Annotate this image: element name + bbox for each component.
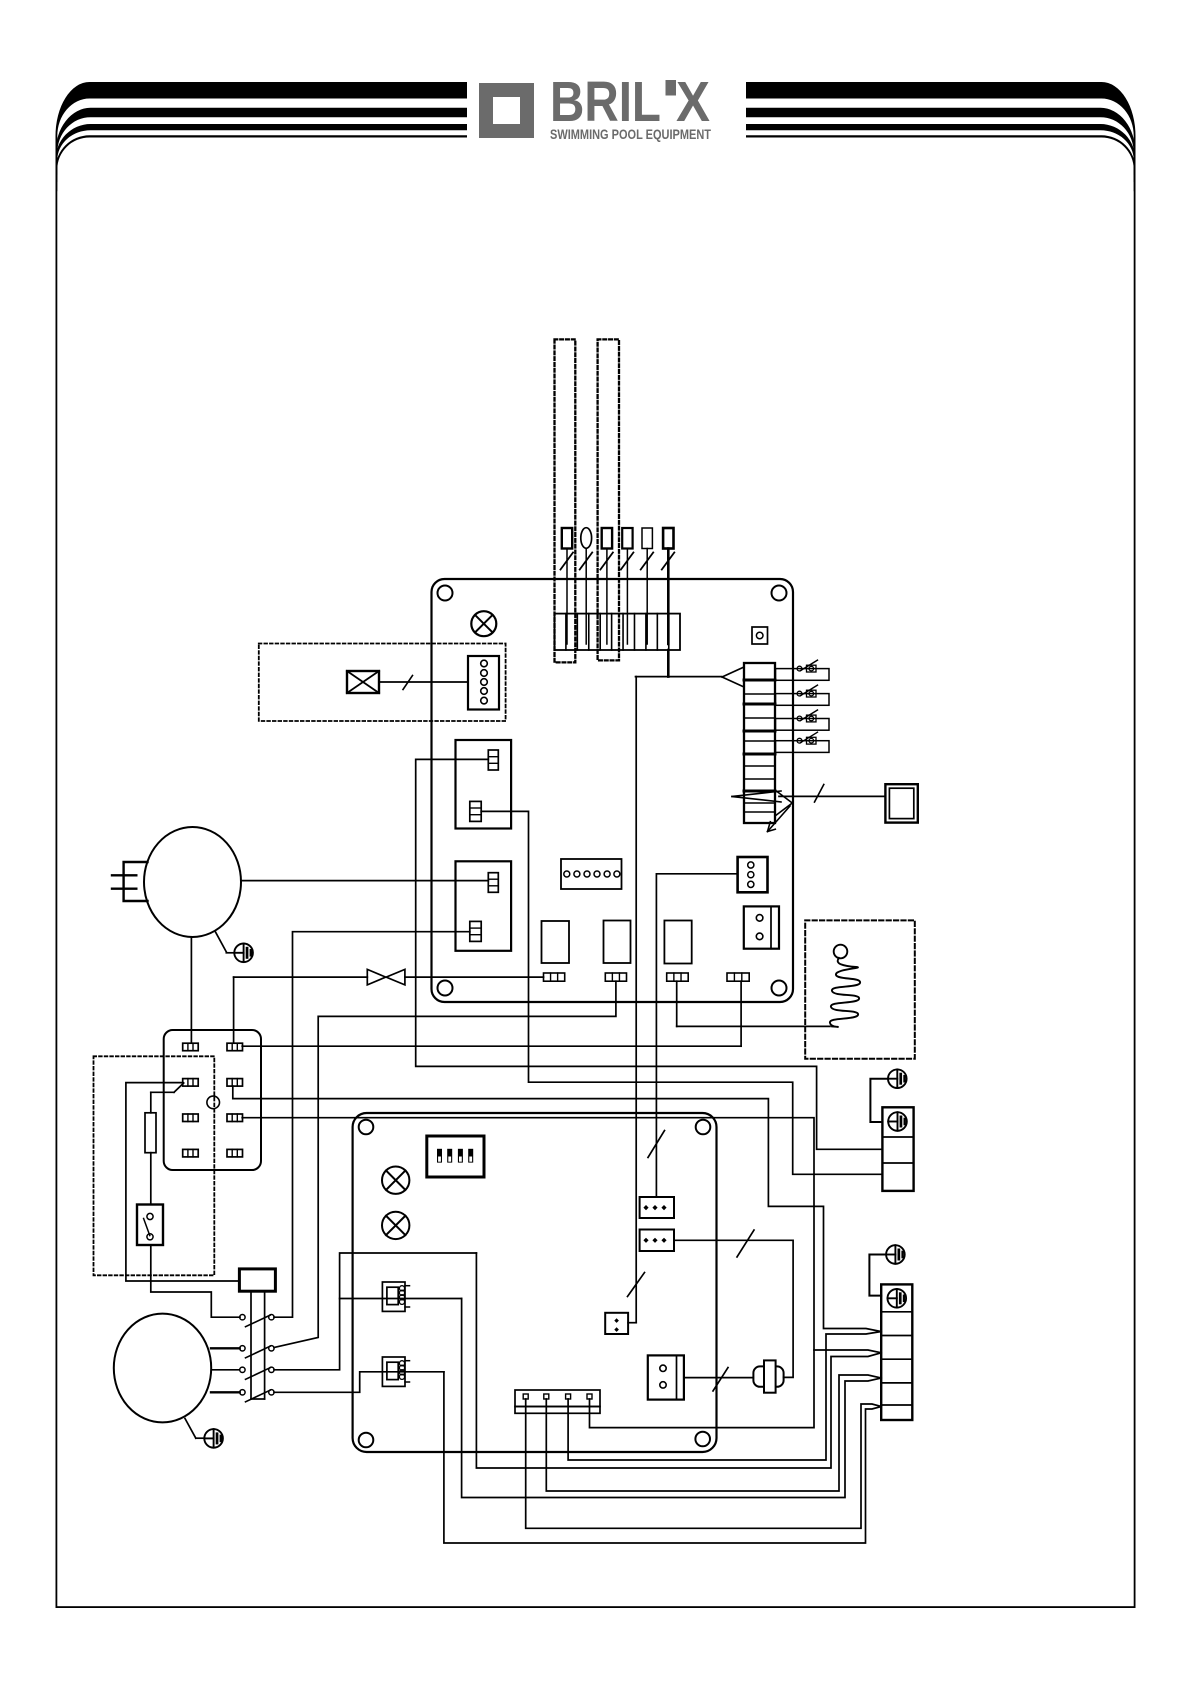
- solenoid valve V1: [367, 969, 385, 985]
- transformer T1: [239, 1269, 275, 1291]
- connector CN6 (6 pin circles): [561, 859, 622, 889]
- dashed cable sheath 1: [555, 339, 576, 662]
- wire: sensor 5 lead: [646, 549, 648, 645]
- wire: M2 to sensor B2: [185, 1419, 196, 1439]
- connector 3-pin J1 with diamonds: [640, 1197, 674, 1218]
- relay coil RL4: [382, 1282, 405, 1311]
- K1 pin connector row1 col1: [183, 1043, 199, 1051]
- K1 pin connector row4 col1: [183, 1149, 199, 1157]
- diagonal arrow pointing down-left: [768, 806, 791, 832]
- crossing slash on J3 wire: [628, 1273, 645, 1297]
- wire: resistor to switch S1: [150, 1153, 152, 1205]
- wire: comb pin 6 down to arrow wire: [667, 650, 670, 677]
- page border bottom line: [56, 1606, 1136, 1608]
- wire: switch row4 through relay coil RL5: [274, 1372, 444, 1393]
- wire U1: PCB2 pin3 to X3 cell2: [568, 1332, 881, 1461]
- wire U5: PCB2 pin1 to X3 cell5: [526, 1399, 882, 1528]
- wire: valve left to relay K1: [234, 976, 368, 978]
- DIP switch block: [427, 1136, 484, 1177]
- control board PCB2: [353, 1113, 717, 1452]
- wire: sensor 4 lead: [626, 549, 628, 645]
- pressure switch S1: [137, 1205, 163, 1246]
- wire: A2 connector via branch to X2 cell3: [481, 811, 882, 1174]
- indicator lamp H2: [382, 1167, 409, 1194]
- switch contact pair row 3: [240, 1367, 245, 1372]
- wire: M2 lead 1: [211, 1347, 240, 1349]
- connector CN2 (2 pin circles): [744, 906, 779, 948]
- terminal strip X0 on PCB1: [744, 663, 775, 823]
- wire U4: coil RL4 output to X3 cell4: [462, 1299, 882, 1498]
- wire: valve to PCB1 connector c1: [405, 976, 544, 978]
- dashed cable sheath 2: [598, 339, 619, 660]
- K1 pin connector row2 col1: [183, 1079, 199, 1087]
- wire: sensor 2 lead: [585, 549, 587, 645]
- output connector c2 of PCB1: [605, 973, 626, 981]
- display unit X-box: [347, 671, 379, 693]
- decorative header stripe frame: [56, 82, 468, 1608]
- temperature sensor B2: [204, 1429, 223, 1448]
- wire: S1 down and right to switch bank: [151, 1245, 240, 1317]
- wire: K1 row2 left loop to transformer T1: [126, 1083, 239, 1281]
- auxiliary device (motorised valve): [753, 1366, 764, 1386]
- relay RL3 on PCB1: [664, 921, 691, 964]
- crossing slash on sensor 4 lead: [621, 553, 634, 570]
- crossing slash on sensor 5 lead: [641, 553, 654, 570]
- crossing slash on CN2B wire: [713, 1368, 728, 1392]
- sensor symbol in X2 cell1: [888, 1112, 907, 1131]
- connector 3-pin vertical A2: [470, 801, 481, 821]
- crossing slash on sensor 6 lead: [662, 553, 675, 570]
- sensor cable terminal 5: [642, 528, 652, 549]
- wire: M2 lead 3: [211, 1391, 240, 1393]
- wire: CN3 to PCB2 J1: [656, 874, 737, 1197]
- connector 2-pin J3: [605, 1313, 628, 1334]
- K1 pin connector row3 col1: [183, 1114, 199, 1122]
- wire: strip to remote connector box: [779, 795, 885, 797]
- remote connector box (double square): [885, 784, 917, 822]
- svg-text:X: X: [676, 70, 710, 134]
- wire: PCB1 c4 to relay K1 row1: [740, 981, 742, 1046]
- switch contact pair row 1: [240, 1315, 245, 1320]
- sensor symbol in X3 cell1: [888, 1289, 907, 1308]
- relay module box K-B on PCB1: [456, 861, 512, 951]
- bottom output connector of PCB2: [515, 1390, 600, 1407]
- K1 center hole: [207, 1096, 220, 1109]
- output connector c3 of PCB1: [667, 973, 689, 981]
- wire: PCB1 c2 to switch row2: [274, 981, 616, 1347]
- sensor cable terminal 1: [562, 528, 572, 549]
- wire: B3 to X2: [870, 1079, 888, 1122]
- relay module box K-A on PCB1: [456, 740, 512, 829]
- sensor cable terminal 6: [663, 528, 673, 549]
- sensor cable terminal 4: [622, 528, 632, 549]
- dotted accessory box: [94, 1056, 215, 1275]
- heater element E1 (coil): [834, 945, 848, 959]
- wire U6: coil RL5 output to X3 cell5: [444, 1372, 881, 1543]
- K1 pin connector row4 col2: [227, 1149, 243, 1157]
- output connector c4 of PCB1: [727, 973, 749, 981]
- connector CN5 (5 pin circles): [468, 656, 499, 710]
- small screw box with circle: [752, 627, 768, 644]
- resistor R1: [145, 1113, 156, 1153]
- crossing slash on X-box wire: [403, 676, 413, 690]
- temperature sensor B1: [234, 944, 253, 963]
- connector 3-pin vertical B2: [470, 921, 481, 941]
- sensor cable terminal 2: [581, 528, 592, 549]
- wire: M1 to PCB1 connector B1: [241, 880, 488, 882]
- wire: M1 to sensor B1: [216, 932, 227, 952]
- BRILIX logo square: [486, 90, 527, 131]
- crossing slash on CN3-J1 wire: [648, 1131, 665, 1158]
- switch bank vertical bars: [250, 1291, 252, 1399]
- wire: branch through relay coil RL4: [340, 1298, 462, 1300]
- wire U2: cross wire to X3 cell3: [476, 1253, 881, 1468]
- indicator lamp H3: [382, 1212, 409, 1239]
- sensor cable terminal 3: [602, 528, 612, 549]
- compressor motor M2: [114, 1314, 211, 1423]
- external sensor B3: [888, 1069, 907, 1088]
- wire U3: PCB2 pin2 to X3 cell4: [546, 1375, 881, 1491]
- crossing slash on sensor 1 lead: [561, 553, 574, 570]
- K1 pin connector row1 col2: [227, 1043, 243, 1051]
- fuse-switch loop F2: [776, 694, 830, 706]
- wire: X-box to connector CN5: [379, 681, 468, 683]
- dotted option box (display unit): [259, 644, 506, 722]
- branch of pin4 run into X3 cell3: [814, 1350, 881, 1353]
- connector CN3 (3 pin circles): [738, 857, 768, 892]
- wire: M2 lead 2: [212, 1369, 240, 1371]
- wire: M1 down to relay K1 row1: [190, 937, 192, 1043]
- crossing slash on remote wire: [815, 785, 824, 803]
- switch contact pair row 2: [240, 1346, 245, 1351]
- relay coil RL5: [382, 1357, 405, 1386]
- double arrow marks at strip bottom: [732, 791, 781, 797]
- terminal block X3 (6 cells): [881, 1284, 912, 1420]
- wire: B4 to X3: [869, 1255, 886, 1296]
- PCB1 mounting holes: [438, 586, 453, 601]
- fan motor M1: [144, 827, 241, 937]
- indicator lamp H1 (crossed circle): [471, 611, 496, 636]
- wire: PCB1 B2 connector to switch row1: [274, 932, 470, 1317]
- control board PCB1: [432, 579, 794, 1002]
- wire: CN2B to auxiliary device: [684, 1377, 753, 1379]
- arrowhead pointing left into terminal strip: [722, 667, 744, 677]
- K1 pin connector row3 col2: [227, 1114, 243, 1122]
- wire: sensor 6 lead: [667, 549, 670, 645]
- wire: A1 connector via branch to X2 cell2: [416, 759, 883, 1149]
- wire: J2 loop to auxiliary device: [674, 1240, 793, 1377]
- connector 3-pin J2 with diamonds: [640, 1230, 674, 1252]
- mains plug symbol: [124, 862, 148, 901]
- K1 pin connector row2 col2: [227, 1079, 243, 1087]
- svg-text:SWIMMING POOL EQUIPMENT: SWIMMING POOL EQUIPMENT: [550, 127, 711, 142]
- wire: switch row3 up-over to PCB2: [274, 1253, 476, 1370]
- connector 3-pin vertical B1: [488, 873, 498, 893]
- relay RL2 on PCB1: [604, 921, 631, 964]
- switch contact pair row 4: [240, 1390, 245, 1395]
- fuse-switch loop F4: [776, 741, 830, 753]
- connector CN2B (2 circles): [648, 1355, 684, 1399]
- wire: arrow wire down to PCB2 J3: [635, 677, 637, 1323]
- crossing slash on loop top: [737, 1230, 754, 1257]
- crossing slash on sensor 2 lead: [580, 553, 593, 570]
- wire: horizontal run to left arrow: [636, 676, 722, 678]
- terminal block X2 (3 cells): [882, 1107, 913, 1191]
- wire: K1 row2 right to X3 cell2: [233, 1086, 881, 1331]
- connector 3-pin vertical A1: [488, 750, 498, 770]
- wire: sensor 1 lead: [566, 549, 568, 645]
- crossing slash on sensor 3 lead: [600, 553, 613, 570]
- output connector c1 of PCB1: [544, 973, 565, 981]
- svg-text:BRIL: BRIL: [550, 70, 661, 134]
- fuse-switch loop F3: [776, 719, 830, 731]
- relay socket K1: [164, 1030, 261, 1170]
- relay RL1 on PCB1: [542, 921, 570, 963]
- dotted heater box: [805, 920, 915, 1058]
- fuse-switch loop F1: [776, 669, 830, 681]
- wire: K1 row3 to PCB2 pin4 run: [242, 1118, 814, 1428]
- wire: K1 row2 to resistor chain: [174, 1083, 184, 1092]
- external sensor B4: [886, 1245, 905, 1264]
- PCB2 mounting holes: [359, 1120, 374, 1135]
- wire: sensor 3 lead: [606, 549, 608, 645]
- connector comb CN-T on PCB1: [555, 614, 681, 650]
- wire: PCB1 c3 to heater E1: [676, 981, 678, 1026]
